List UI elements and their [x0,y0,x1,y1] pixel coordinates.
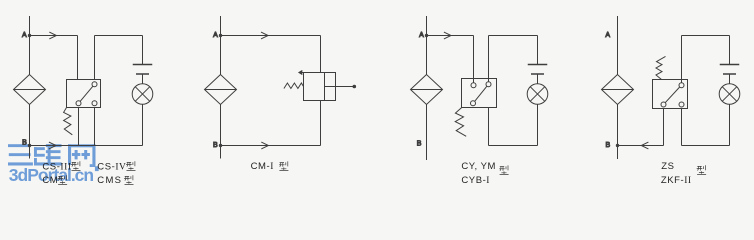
arrow right on top wire [49,32,56,39]
arrow right on top wire [444,32,451,39]
wire: capacitor to lamp [729,74,731,84]
filter F1 (diamond) [14,75,46,105]
label 型 [499,165,508,174]
wire: main line upper segment [426,16,428,75]
wire: lamp leg down [142,104,144,145]
svg-text:CS-III: CS-III [42,162,71,173]
svg-text:CS-IV: CS-IV [97,162,126,173]
switch arm [80,86,93,101]
node A junction dot [28,34,31,37]
svg-text:CM-I: CM-I [251,161,274,172]
wire: top bracket switch to lamp [682,36,730,80]
wire: main line upper segment [29,16,31,75]
lamp L3 [527,84,548,105]
contact circle bottom-left [471,101,476,106]
wire: capacitor to lamp [142,74,144,84]
wire: switch box right leg down [488,108,490,146]
adjust arrow at box corner [300,72,303,74]
label 型 [697,165,706,174]
svg-text:ZS: ZS [661,161,674,172]
arrow right on top wire [261,32,268,39]
switch box S3 [462,79,497,108]
capacitor C1 plates [133,65,153,75]
contact circle bottom-left [76,101,81,106]
wire: top bridge to lamp branch [489,36,538,79]
capacitor C4 plates [720,65,740,75]
node A junction dot [425,34,428,37]
wire: main line upper segment [220,16,222,75]
contact circle bottom-left [661,102,666,107]
wire: bottom link to lamp [489,145,538,147]
wire: switch box right leg down [681,109,683,146]
wire: lamp leg down [537,104,539,145]
contact circle bottom-right [679,102,684,107]
wire: drop into pressure switch [320,36,322,73]
node B junction dot [219,144,222,147]
svg-text:B: B [213,142,218,149]
svg-text:B: B [417,140,422,147]
spring left of pressure switch [284,83,304,89]
watermark tm square [95,166,99,171]
wire: drop into switch box left [77,36,79,80]
wire: drop into switch box left [473,36,475,79]
node A junction dot [219,34,222,37]
svg-text:B: B [606,142,611,149]
watermark 网 plus right [82,153,90,156]
svg-text:CM: CM [42,175,58,186]
filter F3 (diamond) [411,75,443,105]
spring below switch box [64,108,73,135]
svg-text:A: A [22,32,27,39]
wire: switch box left leg down [78,108,80,146]
wire: main line lower segment [220,105,222,159]
svg-text:CY, YM: CY, YM [461,161,496,172]
arrow left on bottom wire [641,142,648,149]
switch box S1 [67,80,101,108]
wire: main line lower segment [617,105,619,160]
watermark 网 plus left [72,153,80,156]
wire stubs inside box [474,79,489,83]
wire: capacitor to lamp [537,74,539,84]
watermark 三 [8,144,31,147]
arrow right on bottom wire [49,142,56,149]
wire: bottom wire B to switch [618,145,664,147]
contact circle top-right [486,82,491,87]
wire: main line upper segment [617,16,619,75]
contact circle top-right [679,83,684,88]
arrow right on bottom wire [261,142,268,149]
lamp L4 [719,84,740,105]
svg-text:A: A [213,32,218,39]
contact circle bottom-right [92,101,97,106]
wire: main line lower segment [426,105,428,161]
wire: pressure switch leg down [320,101,322,146]
watermark 维 left radical [34,147,45,150]
node B junction dot [28,144,31,147]
svg-text:A: A [605,32,610,39]
pressure switch P1 small box [325,73,336,101]
wire: main line lower segment [29,105,31,159]
wire: top wire to pressure switch [221,35,321,37]
watermark 维 right part [48,144,51,165]
capacitor C3 plates [528,65,548,75]
wire: switch box left leg down [663,109,665,146]
svg-text:ZKF-II: ZKF-II [661,175,692,186]
spring above switch box [656,56,666,79]
switch box S4 [653,80,688,109]
wire: switch box right leg down [94,108,96,146]
svg-text:CMS: CMS [97,175,122,186]
wire: bottom wire B [221,145,321,147]
contact circle top-right [92,82,97,87]
switch arm [665,87,680,103]
pressure switch P1 main box [304,73,325,101]
wire: bottom wire B [30,145,143,147]
switch arm [475,86,487,101]
svg-text:A: A [419,32,424,39]
wire: bottom bracket switch to lamp [682,104,730,145]
filter F4 (diamond) [602,75,634,105]
contact circle top-left [471,83,476,88]
lamp L1 [132,84,153,105]
watermark 网 frame (open bottom) [68,144,96,147]
spring below switch box [455,108,466,137]
wire stub inside box [681,80,683,83]
electric out line with dot [325,86,354,88]
svg-text:B: B [22,140,27,147]
node B junction dot [616,144,619,147]
wire: top wire to switch branch [427,35,474,37]
svg-text:CYB-I: CYB-I [461,175,490,186]
wire: top bridge to lamp branch [95,36,143,80]
filter F2 (diamond) [205,75,237,105]
wire: top wire A to switch branch [30,35,78,37]
